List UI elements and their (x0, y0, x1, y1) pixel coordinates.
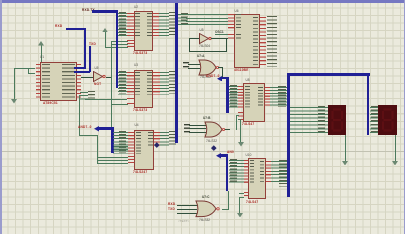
node RXD-TXD bus label (82, 9, 95, 12)
node bus2 tap labels (181, 13, 188, 26)
wire U7:A inputs (188, 64, 200, 65)
or-gate U7:A (198, 59, 219, 77)
wire U2 outputs (159, 13, 169, 37)
decoder U10 part number (246, 201, 258, 204)
node AND bus label 2 (206, 75, 220, 78)
wire bus2 taps right (178, 14, 187, 25)
wire LE to U2 (111, 41, 128, 42)
ground DS2 (395, 135, 396, 162)
wire U5:B input (189, 38, 199, 39)
node U4 output labels (169, 131, 176, 145)
op-amp U5:B designator (200, 29, 204, 32)
U3 lower control pins (127, 98, 134, 105)
decoder U8 body (243, 83, 265, 123)
U1 part number (43, 102, 58, 105)
not label U5:B (199, 45, 210, 48)
wire long runs to U6 inputs (186, 14, 228, 15)
wire bus4 to DS1 (290, 107, 328, 133)
ground DS1 (345, 135, 346, 162)
node U2 output labels (169, 12, 176, 36)
wire U10 lower pin to ground (239, 197, 244, 198)
node U7:B input labels (184, 124, 190, 134)
node TXD label (89, 43, 96, 46)
wire U7:C inputs (177, 205, 197, 206)
U4 lower control pins (128, 156, 135, 165)
latch U2 body (134, 11, 153, 51)
wire U4 outputs (160, 132, 169, 146)
power arrow mid (near U2) (105, 31, 106, 47)
U10 left pins (244, 160, 249, 183)
latch U4 part number (133, 171, 147, 174)
node bus5 tap labels (230, 159, 238, 182)
wire bus5 taps to U10 (229, 160, 244, 183)
7seg display DS2 (378, 105, 397, 135)
wire U7:C output riser to bus5 (222, 209, 228, 210)
node DS2 wire labels (371, 106, 378, 133)
U2 pin names (135, 13, 140, 37)
text placeholder bottom (178, 219, 189, 223)
decoder U8 part number (242, 123, 254, 126)
driver U6 part number (234, 69, 249, 72)
wire osc to U6 (215, 34, 229, 35)
not-gate U5:B (199, 33, 212, 45)
node P3 labels (88, 91, 95, 100)
U1 left pins (36, 64, 41, 100)
latch U3 body (134, 70, 154, 108)
latch U3 designator (134, 64, 138, 67)
wire LE to U3 (85, 99, 127, 100)
U2 lower control pins (127, 40, 134, 48)
U6 left pins mid (228, 34, 235, 41)
wire feedback bottom (189, 51, 226, 52)
wire into U4 lower pins (97, 157, 128, 158)
ground under U10 (237, 213, 243, 218)
U4 right pins (154, 132, 161, 146)
latch U2 part number (133, 52, 147, 55)
wire latch-enable vertical trunk (111, 41, 112, 149)
U4 left pins (128, 132, 135, 154)
not-gate U5:A input wire (81, 77, 94, 78)
micro U1 body (40, 62, 77, 101)
node OSC label (215, 31, 224, 34)
U1 left pin names (42, 64, 51, 100)
node tap labels U3 (119, 71, 126, 94)
wire feedback right vertical (226, 38, 227, 52)
op-amp U5:A designator (95, 67, 99, 70)
node U7:A input labels (183, 62, 189, 70)
wire U5:A output (106, 77, 112, 78)
window right edge (404, 0, 405, 234)
driver U6 body (234, 14, 260, 69)
U8 lower left pins (238, 112, 243, 121)
U2 left pins (127, 13, 134, 37)
wire U5:B output (211, 38, 228, 39)
wire U7:B output (225, 129, 231, 130)
U10 pin names (250, 160, 255, 183)
latch U4 designator (135, 124, 139, 127)
or-gate U7:C designator (202, 196, 209, 199)
or-gate U7:C (195, 200, 220, 218)
node RXD label (55, 25, 62, 28)
U10 right pins (266, 161, 271, 182)
wire U7:A output (218, 67, 222, 68)
wire U10 outputs to bus4 (271, 161, 288, 182)
node DS1 wire labels (318, 106, 325, 133)
power arrow above U1 (41, 45, 42, 62)
window left edge (0, 0, 2, 234)
U6 pin names left (236, 14, 241, 28)
wire feedback left vertical (189, 38, 190, 52)
U10 lower left pins (244, 192, 249, 198)
wire U3 outputs (160, 72, 170, 95)
U1 right pin names (62, 64, 75, 100)
or-gate U7:A part (200, 76, 211, 79)
U8 right pins (265, 87, 270, 107)
node tap labels U4 (119, 131, 126, 153)
ground (14, 68, 15, 100)
U8 pin names (245, 86, 250, 109)
not-gate U5:A (93, 71, 106, 83)
node bus3 tap labels (230, 85, 237, 108)
node junction diamond 2 (211, 145, 216, 150)
decoder U10 body (248, 158, 266, 199)
latch U4 body (134, 130, 154, 171)
node U7:C input labels (168, 203, 175, 206)
node U10 output labels (279, 160, 287, 187)
or-gate U7:B part (206, 140, 217, 143)
wire U7:B output up to U8 (236, 115, 237, 131)
wire LE to U4 (111, 146, 128, 147)
wire bus4 vertical (287, 73, 290, 197)
wire bus taps to U4 (113, 132, 128, 154)
driver U6 designator (235, 10, 239, 13)
op-amp U1 designator (40, 56, 44, 59)
U3 pin names (135, 72, 140, 95)
wire U8 outputs to bus4 (270, 87, 288, 107)
node U6 right pin labels (267, 16, 277, 67)
wire bus4 top horizontal (287, 73, 370, 76)
U2 right pins (153, 13, 160, 37)
U1 right pins (77, 64, 82, 100)
or-gate U7:A designator (197, 55, 204, 58)
decoder U10 designator (246, 154, 252, 157)
U6 pin names right (253, 17, 258, 67)
wire vertical join (28, 68, 29, 73)
wire U8 lowest pin to ground (238, 119, 241, 120)
wire P3 stubs right of U1 (80, 92, 88, 100)
U3 left pins (127, 72, 134, 95)
U6 right pins (260, 17, 267, 67)
U3 right pins (153, 72, 160, 95)
latch U2 designator (134, 6, 138, 9)
decoder U8 designator (246, 79, 250, 82)
node junction diamond 1 (154, 142, 159, 147)
wire RXD blue from U1 (74, 67, 85, 69)
wire bus taps to U2 (118, 13, 128, 37)
wire bus3 arrow (217, 76, 222, 82)
wire bus hook to U4 (94, 126, 99, 132)
wire TXD blue from U1 (74, 71, 90, 73)
wire U1 left pin to ground (14, 68, 35, 69)
wire bus5 arrow (216, 153, 221, 159)
or-gate U7:C part (199, 219, 210, 222)
U4 pin names (136, 132, 141, 154)
wire second left pin (28, 73, 35, 74)
node U3 output labels (169, 71, 176, 94)
node bus5 label (227, 151, 234, 154)
or-gate U7:B designator (203, 117, 210, 120)
wire bus1 top horizontal (92, 10, 118, 12)
node AND bus label (78, 126, 92, 129)
or-gate U7:B (204, 121, 225, 139)
wire bus taps to U3 (118, 72, 128, 95)
window top bar (0, 0, 405, 3)
ground under U8 (238, 142, 244, 147)
wire from U1 P3 down-left trunk (79, 95, 80, 135)
node tap labels U2 (119, 12, 126, 36)
wire U7:B inputs (189, 125, 206, 126)
wire bus3 taps to U8 (229, 86, 239, 109)
wire bus1 vertical (116, 10, 119, 88)
wire bus4 right vertical (367, 73, 369, 135)
sheet border faint line (0, 151, 405, 152)
node U8 output labels (278, 86, 286, 107)
not label (94, 83, 101, 86)
U8 left pins (238, 86, 243, 109)
7seg display DS1 (328, 105, 347, 135)
U6 left pins upper (228, 14, 235, 29)
wire bus2 vertical (175, 3, 178, 143)
wire bus4r to DS2 (370, 107, 379, 133)
latch U3 part number (133, 109, 147, 112)
